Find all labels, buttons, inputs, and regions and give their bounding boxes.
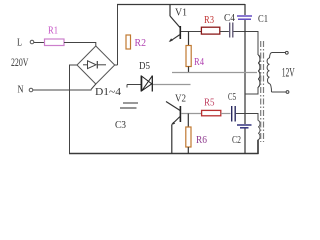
resistor R6 — [186, 127, 208, 147]
svg-text:C5: C5 — [228, 91, 236, 103]
svg-text:V2: V2 — [175, 93, 186, 105]
wire R5 to C5 — [221, 113, 231, 115]
terminal secondary top — [285, 51, 288, 54]
capacitor C1 — [237, 13, 268, 25]
svg-text:C4: C4 — [224, 12, 235, 24]
svg-text:R6: R6 — [196, 134, 207, 146]
wire C5 to transformer — [236, 114, 258, 121]
transistor V1 — [169, 4, 187, 42]
svg-text:D1~4: D1~4 — [95, 86, 122, 98]
wire winding bottom lead — [257, 140, 259, 154]
wire N to bridge — [33, 89, 92, 91]
capacitor C3 — [115, 103, 138, 131]
transformer core — [261, 41, 264, 142]
wire secondary top lead — [270, 53, 286, 59]
wire main right vertical — [244, 4, 246, 154]
svg-text:D5: D5 — [139, 60, 150, 72]
svg-text:C2: C2 — [232, 134, 241, 146]
resistor R5 — [202, 97, 221, 116]
transistor V2 — [166, 93, 186, 155]
wire bottom rail — [69, 153, 259, 155]
terminal N — [18, 84, 33, 96]
svg-text:N: N — [18, 84, 24, 96]
svg-text:12V: 12V — [282, 66, 295, 80]
transformer primary winding top — [258, 55, 260, 87]
wire R6 bottom stub — [187, 147, 189, 154]
wire box left vertical — [117, 4, 119, 65]
svg-text:R4: R4 — [194, 56, 204, 68]
wire V2 base — [181, 113, 202, 115]
terminal secondary bottom — [286, 91, 289, 94]
capacitor C4 — [224, 12, 235, 38]
svg-text:L: L — [17, 37, 22, 49]
wire C4 to transformer — [233, 32, 258, 56]
svg-text:R5: R5 — [204, 97, 215, 109]
wire midpoint rail — [172, 72, 257, 74]
wire bridge left vertex stub — [69, 64, 77, 66]
resistor R3 — [201, 14, 219, 34]
transformer secondary winding — [267, 58, 269, 84]
bridge rectifier D1-4 diamond — [77, 46, 115, 90]
wire secondary bottom lead — [270, 84, 287, 93]
diode D5 — [127, 60, 152, 92]
svg-text:C1: C1 — [258, 13, 268, 25]
wire R1 to bridge top — [64, 43, 96, 47]
svg-text:R3: R3 — [204, 14, 214, 26]
terminal L — [17, 37, 34, 49]
svg-text:R2: R2 — [135, 37, 147, 49]
wire bridge right vertex stub — [115, 64, 118, 66]
svg-text:V1: V1 — [175, 7, 187, 19]
resistor R1 — [45, 25, 65, 46]
resistor R4 — [186, 46, 204, 69]
wire V1 base — [181, 31, 201, 33]
wire L to R1 — [34, 42, 44, 44]
wire R3 to C4 — [220, 31, 229, 33]
wire primary top bottom lead — [245, 87, 258, 94]
svg-text:R1: R1 — [48, 25, 58, 37]
capacitor C5 — [228, 91, 236, 122]
wire R4 bottom stub — [188, 67, 190, 73]
resistor R2 — [126, 35, 146, 49]
wire R6 top stub — [187, 114, 189, 128]
wire D5 output — [153, 84, 191, 86]
transformer primary winding bottom — [258, 121, 260, 140]
svg-text:C3: C3 — [115, 119, 126, 131]
capacitor C2 — [232, 125, 252, 146]
wire left vertical — [69, 65, 71, 154]
wire R4 top stub — [188, 32, 190, 46]
svg-text:220V: 220V — [11, 55, 29, 69]
wire top rail — [117, 4, 245, 6]
